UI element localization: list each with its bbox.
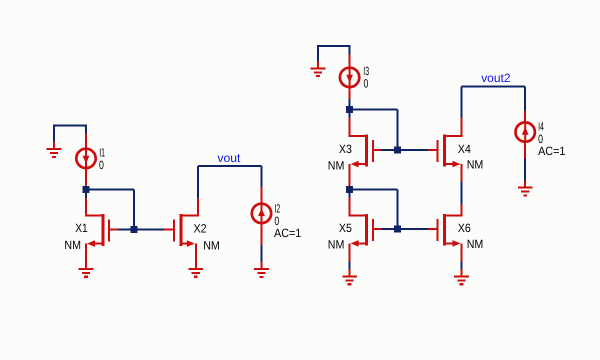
wire vout2 to I4 [524, 86, 526, 110]
svg-text:NM: NM [328, 158, 345, 172]
svg-text:NM: NM [203, 238, 220, 252]
wire I2 to ground [261, 245, 263, 262]
current source I4 top lead [524, 110, 526, 122]
node junction below I3 [346, 106, 353, 113]
current source I2 [252, 204, 271, 223]
wire X4 source to X6 drain [461, 181, 463, 204]
wire top-left vertical to ground [53, 125, 55, 142]
current source I3 bottom lead [349, 87, 351, 99]
transistor X5 drain lead [349, 198, 351, 216]
wire bias horizontal from junction [86, 189, 134, 191]
svg-text:X3: X3 [339, 142, 352, 156]
ground below X6 [454, 269, 469, 285]
wire vout2 net horizontal [462, 85, 526, 87]
transistor X5 [349, 214, 382, 247]
wire diode-connect vertical X3 [397, 110, 399, 150]
wire junction to X1 drain [85, 193, 87, 198]
svg-text:vout: vout [217, 151, 241, 165]
wire X5 gate to junction [381, 228, 394, 230]
wire top-right vertical to ground [317, 46, 319, 62]
ground below I4 [518, 180, 533, 196]
wire I3 to junction [349, 99, 351, 106]
node junction X3 source X5 drain [346, 186, 353, 193]
wire vout to I2 [261, 166, 263, 187]
wire X1 gate to junction [118, 228, 134, 230]
wire junction to X6 gate [401, 228, 429, 230]
svg-text:X2: X2 [194, 221, 207, 235]
ground top-left [47, 142, 62, 158]
svg-text:NM: NM [64, 238, 81, 252]
wire stub above I3 [349, 46, 351, 55]
transistor X1 [85, 214, 118, 247]
wire X5 source to ground [349, 262, 351, 270]
svg-text:0: 0 [99, 158, 104, 172]
current source I3 [340, 68, 359, 87]
svg-text:X1: X1 [75, 221, 88, 235]
wire diode-connect horizontal X3 [350, 109, 398, 111]
svg-text:X4: X4 [458, 142, 471, 156]
wire I4 to ground [524, 158, 526, 180]
transistor X6 source lead red [461, 243, 463, 261]
current source I2 top lead [261, 187, 263, 204]
ground below X5 [342, 269, 357, 285]
svg-text:X6: X6 [458, 221, 471, 235]
svg-text:NM: NM [467, 158, 484, 172]
svg-text:AC=1: AC=1 [538, 144, 566, 158]
transistor X4 drain lead navy from vout2 [461, 86, 463, 118]
current source I4 [516, 122, 535, 141]
wire top-right vdd-loop horizontal [317, 45, 351, 47]
svg-text:0: 0 [364, 76, 369, 90]
transistor X6 drain lead red [461, 205, 463, 216]
transistor X2 drain lead red [197, 198, 199, 216]
svg-text:NM: NM [467, 237, 484, 251]
svg-text:AC=1: AC=1 [274, 226, 302, 240]
wire mid bias vertical to X5 gate net [397, 190, 399, 230]
wire junction below I3 to X3 drain [349, 113, 351, 118]
ground below X2 [189, 262, 204, 278]
current source I3 top lead [349, 55, 351, 68]
svg-text:X5: X5 [339, 221, 352, 235]
transistor X4 drain lead red [461, 118, 463, 136]
transistor X2 drain lead navy from vout [197, 166, 199, 198]
svg-text:NM: NM [328, 238, 345, 252]
transistor X3 [349, 135, 382, 168]
wire X3 gate to junction [381, 149, 394, 151]
current source I1 [76, 149, 95, 168]
current source I2 bottom lead [261, 223, 263, 245]
wire top-left vdd-loop horizontal [53, 124, 87, 126]
transistor X1 drain lead [85, 198, 87, 216]
transistor X3 source lead [349, 164, 351, 186]
current source I1 top lead [85, 134, 87, 150]
transistor X6 [428, 214, 463, 247]
svg-text:vout2: vout2 [481, 71, 511, 85]
transistor X1 source lead [85, 244, 87, 262]
transistor X4 [428, 135, 463, 168]
wire X6 source to ground [461, 262, 463, 270]
wire junction to X5 drain [349, 193, 351, 198]
ground top-right [311, 61, 326, 77]
node junction on gate net [131, 226, 138, 233]
transistor X4 source lead red [461, 164, 463, 181]
wire bias vertical down to gate net [133, 190, 135, 230]
transistor X2 [164, 214, 199, 247]
wire mid bias horizontal from junction [350, 189, 398, 191]
current source I4 bottom lead [524, 141, 526, 158]
transistor X2 source lead [195, 244, 197, 262]
ground below X1 [79, 262, 94, 278]
node junction X5 gate [394, 226, 401, 233]
transistor X5 source lead red [349, 243, 351, 261]
wire junction to X4 gate [401, 149, 430, 151]
transistor X3 drain lead [349, 118, 351, 136]
node junction below I1 [83, 186, 90, 193]
ground below I2 [254, 262, 269, 278]
wire stub above I1 [85, 125, 87, 133]
wire gate net junction to X2 gate [134, 228, 164, 230]
current source I1 bottom lead [85, 168, 87, 186]
node junction X3 gate [394, 146, 401, 153]
wire vout net horizontal [198, 165, 262, 167]
